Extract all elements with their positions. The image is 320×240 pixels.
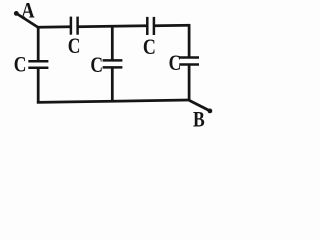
- svg-text:C: C: [90, 53, 103, 78]
- svg-text:C: C: [143, 35, 156, 59]
- svg-text:B: B: [193, 107, 205, 132]
- svg-text:C: C: [68, 34, 81, 59]
- svg-text:C: C: [169, 51, 182, 76]
- svg-text:A: A: [21, 0, 34, 23]
- svg-text:C: C: [14, 53, 27, 78]
